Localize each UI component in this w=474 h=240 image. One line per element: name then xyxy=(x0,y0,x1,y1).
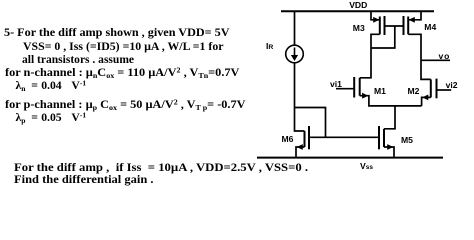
problem text line 6 xyxy=(5,98,245,111)
svg-text:M1: M1 xyxy=(374,86,386,96)
transistor M3 (PMOS) xyxy=(380,16,385,35)
svg-text:vi1: vi1 xyxy=(330,79,342,89)
transistor M6 (NMOS) xyxy=(305,126,310,149)
wire M1 source to common node xyxy=(360,96,422,106)
wire M2 source bend xyxy=(422,97,431,106)
svg-text:Vss: Vss xyxy=(360,161,373,171)
transistor M1 (NMOS) xyxy=(354,77,360,98)
svg-text:VDD: VDD xyxy=(349,0,367,10)
transistor M5 (NMOS) xyxy=(379,126,384,149)
wire VSS rail xyxy=(257,157,443,159)
problem text line 9 xyxy=(14,173,154,186)
svg-text:M4: M4 xyxy=(424,22,436,32)
wire M6-M5 gate line xyxy=(309,136,379,138)
wire M3 drain to M1 drain xyxy=(360,34,380,78)
problem text line 4 xyxy=(5,66,239,79)
svg-text:M6: M6 xyxy=(282,134,294,144)
problem text line 1 xyxy=(4,26,230,39)
wire M6 diode tap xyxy=(295,108,326,138)
wire IR branch lower (to M6 drain) xyxy=(295,63,305,131)
wire M4 drain to M2 drain xyxy=(408,34,431,79)
problem text line 3 xyxy=(22,53,134,66)
svg-text:IR: IR xyxy=(266,41,273,51)
problem text line 2 xyxy=(23,40,223,53)
wire vi2 gate lead xyxy=(437,89,452,91)
wire VDD rail xyxy=(281,10,434,12)
wire M5 source to VSS xyxy=(384,147,394,158)
transistor M4 (PMOS) xyxy=(404,16,409,35)
svg-text:M2: M2 xyxy=(408,86,420,96)
wire M4 source stub xyxy=(408,12,421,20)
svg-text:M3: M3 xyxy=(353,23,365,33)
wire M3 source stub xyxy=(371,12,380,20)
transistor M2 (NMOS) xyxy=(431,79,437,99)
problem text line 7 xyxy=(0,110,474,112)
wire M3-M4 gate line xyxy=(385,25,404,27)
problem text line 5 xyxy=(0,78,474,80)
current source IR xyxy=(286,45,304,63)
problem text line 8 xyxy=(14,161,308,174)
wire IR branch upper xyxy=(294,12,296,46)
wire vi1 gate lead xyxy=(336,88,354,90)
svg-text:vi2: vi2 xyxy=(446,80,458,90)
wire vo tap xyxy=(421,59,450,61)
svg-text:M5: M5 xyxy=(401,135,413,145)
svg-text:vo: vo xyxy=(439,51,450,61)
wire tail node to M5 drain xyxy=(384,106,395,129)
wire M6 source to VSS xyxy=(296,147,305,158)
wire gate-to-drain tap of M3 xyxy=(371,26,395,48)
